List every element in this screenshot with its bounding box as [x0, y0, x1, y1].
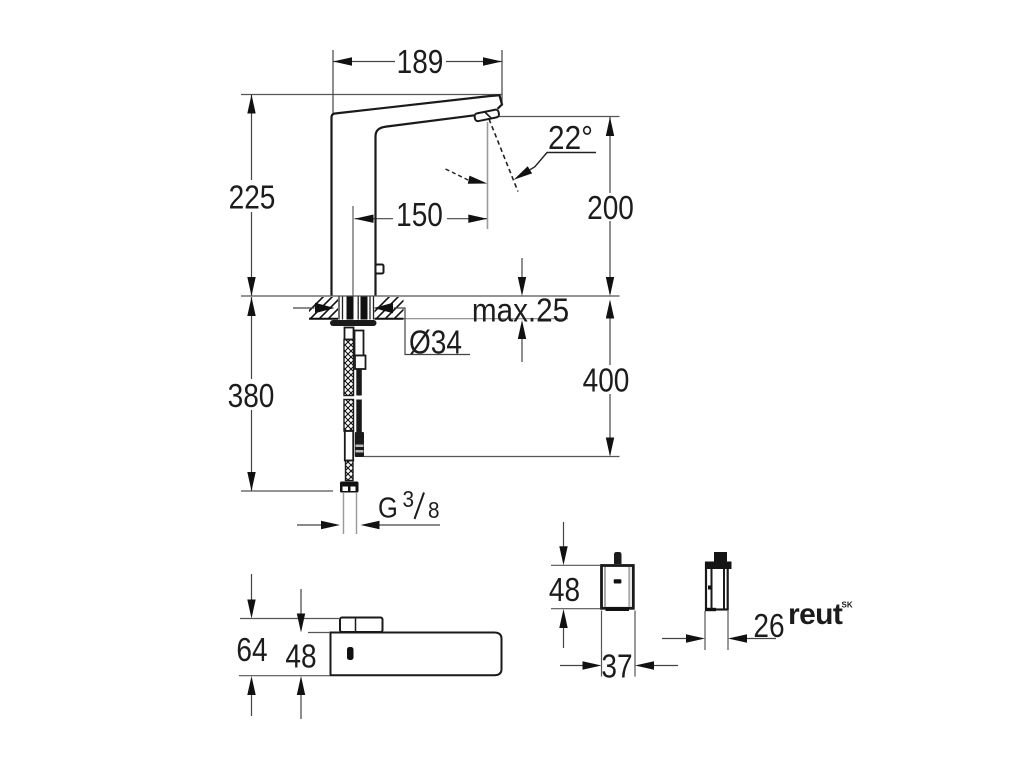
top view main body: [331, 633, 502, 676]
sensor tab on body: [376, 265, 384, 274]
svg-text:48: 48: [549, 572, 580, 609]
svg-text:48: 48: [285, 638, 316, 675]
node dim-400: [609, 302, 611, 455]
svg-text:200: 200: [587, 190, 634, 227]
control box nub: [614, 552, 622, 564]
wire countertop line y=296: [241, 295, 620, 297]
control box dash: [614, 579, 622, 583]
top view small rear rect: [340, 618, 383, 633]
wire dashed stream line: [489, 119, 518, 192]
threaded shank upper nut: [345, 328, 354, 340]
node dim-G38: [297, 524, 321, 526]
node dim-48 top view: [308, 632, 330, 634]
node dim-64: [240, 618, 340, 620]
svg-text:22°: 22°: [548, 120, 593, 157]
svg-text:Ø34: Ø34: [409, 324, 462, 361]
node dim-200: [496, 116, 620, 118]
wire top reference line y=94.5: [241, 94, 503, 96]
threaded rod segment 1: [344, 340, 354, 396]
svg-text:225: 225: [229, 179, 276, 216]
node dim-150: [352, 206, 354, 296]
cable connector: [355, 432, 364, 457]
node dim-189: [333, 50, 502, 114]
cable dark bar 1: [356, 369, 362, 396]
wire reference line y=456.5: [364, 456, 620, 458]
node dim-37: [601, 611, 603, 677]
wire bottom reference line y=491: [241, 490, 333, 492]
shank cross-section stripes: [339, 297, 374, 320]
threaded rod segment 2: [344, 400, 354, 432]
svg-text:37: 37: [601, 648, 632, 685]
node dim-380: [251, 297, 253, 491]
cable dark bar 2: [356, 400, 362, 433]
plain rod: [345, 431, 353, 461]
svg-text:3: 3: [403, 486, 415, 512]
faucet outline side view: [332, 95, 503, 296]
G3/8 nut: [340, 482, 359, 493]
node dim-225: [251, 95, 253, 297]
svg-text:G: G: [378, 491, 398, 524]
cable upper rect: [355, 331, 364, 356]
wire counter bottom gray line: [404, 318, 569, 320]
svg-text:SK: SK: [842, 601, 853, 610]
node dim-48 control box: [551, 564, 600, 566]
mounting washer: [330, 320, 377, 326]
node dim-max25: [521, 258, 523, 278]
hatch right counter section: [366, 296, 417, 320]
node dim-26: [704, 611, 706, 650]
control box front view: [602, 566, 634, 609]
hose lines below nut: [343, 493, 345, 534]
svg-text:150: 150: [396, 197, 443, 234]
svg-text:189: 189: [397, 44, 444, 81]
control box side view: [706, 563, 728, 610]
svg-text:380: 380: [228, 378, 275, 415]
aerator at spout tip: [474, 109, 499, 122]
node dim-diam34: [293, 307, 315, 309]
control box bottom band: [606, 607, 630, 611]
svg-text:max.25: max.25: [472, 292, 569, 329]
svg-text:reut: reut: [788, 598, 843, 631]
svg-text:64: 64: [236, 632, 267, 669]
svg-text:400: 400: [583, 362, 630, 399]
hatch left counter section: [300, 296, 351, 320]
cable second rect: [355, 356, 366, 370]
svg-text:26: 26: [753, 608, 784, 645]
svg-text:8: 8: [428, 497, 440, 523]
top view sensor mark: [347, 647, 354, 660]
lower threaded piece: [346, 461, 354, 481]
